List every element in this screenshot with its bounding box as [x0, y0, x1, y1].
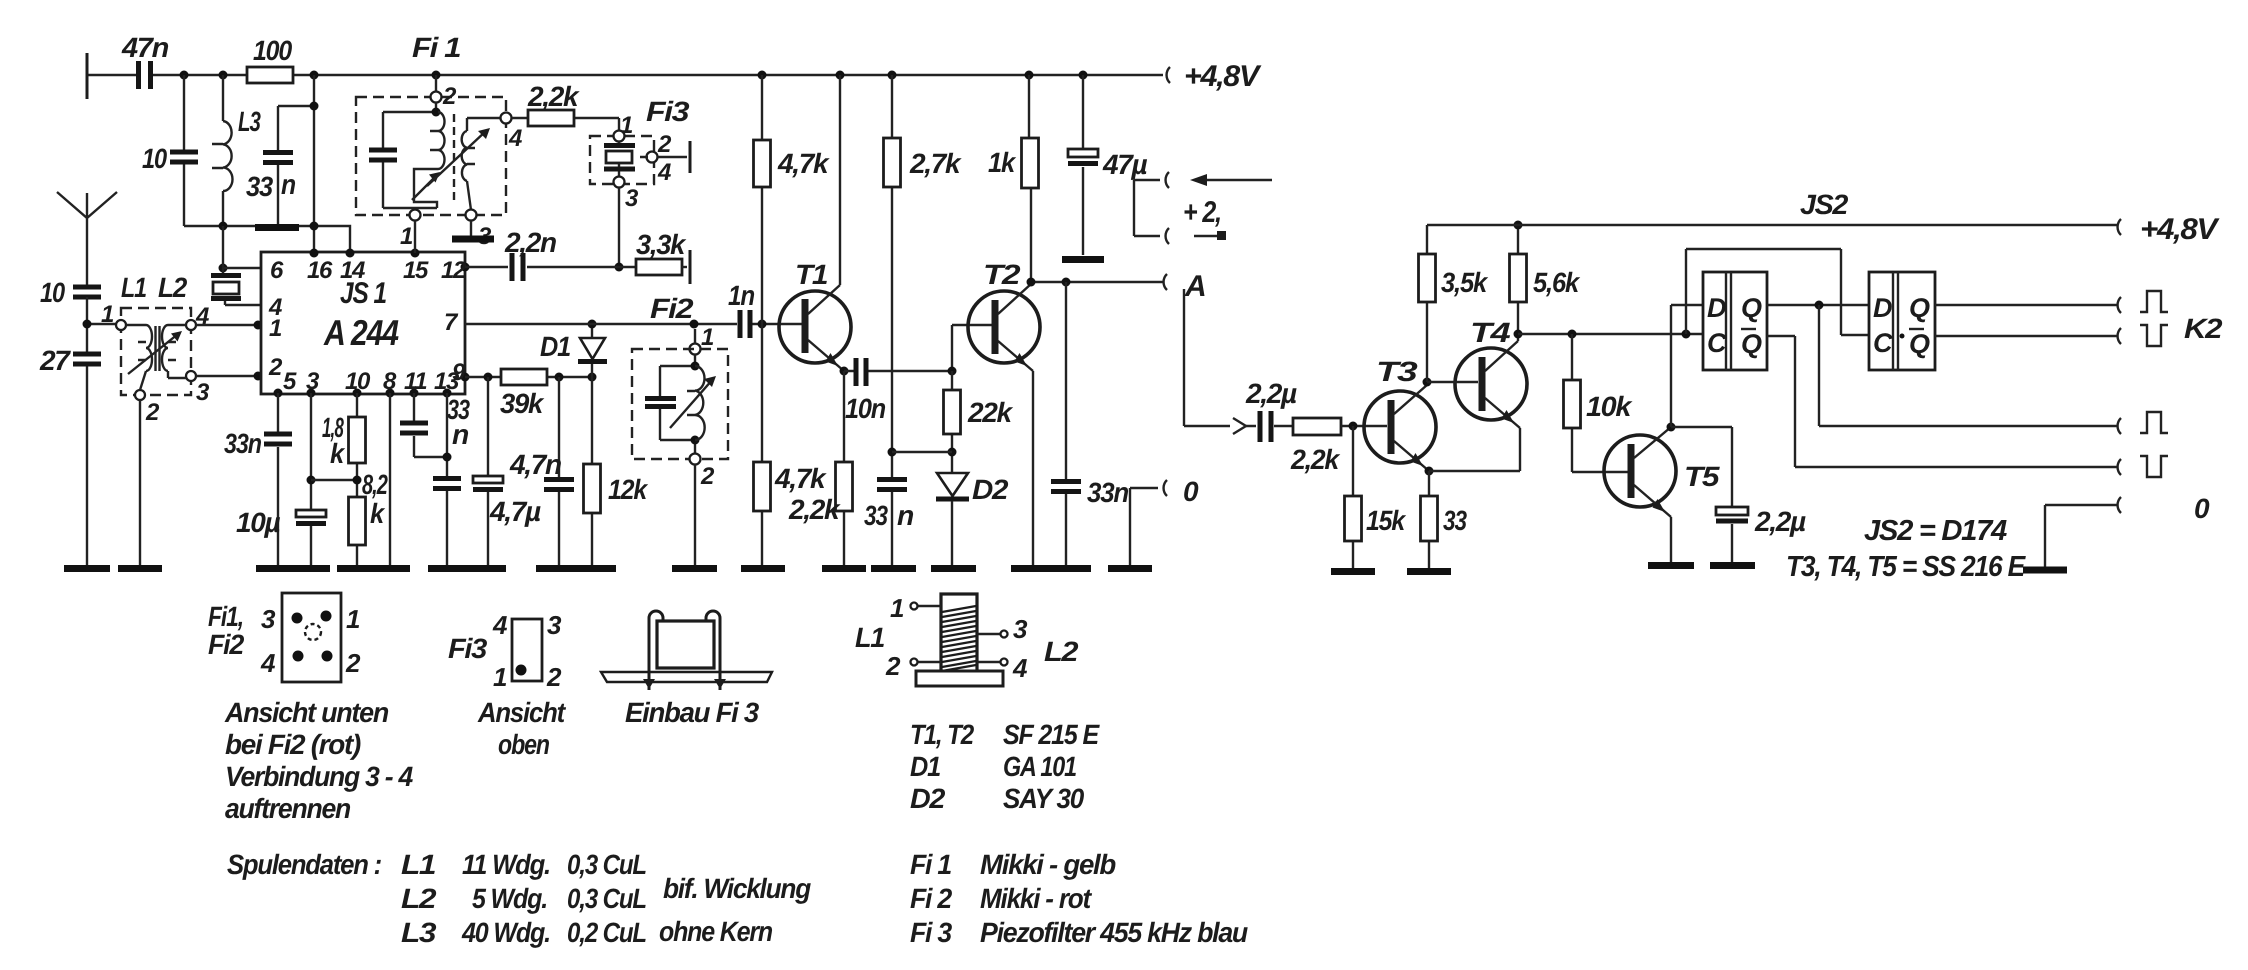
svg-text:T2: T2 [983, 259, 1021, 290]
svg-text:bei Fi2 (rot): bei Fi2 (rot) [225, 729, 361, 760]
capacitor 33n (IC pin11) [400, 393, 470, 457]
transistor T4 [1427, 317, 1527, 428]
svg-text:A 244: A 244 [323, 312, 399, 353]
svg-text:Q: Q [1909, 293, 1930, 323]
resistor 2,7k [884, 75, 963, 452]
svg-text:D2: D2 [972, 474, 1009, 505]
svg-text:4: 4 [260, 648, 276, 678]
ground (D2) [931, 565, 976, 572]
svg-text:33: 33 [246, 171, 274, 202]
IC U1 A244 [261, 249, 470, 398]
capacitor 10 (antenna) [40, 277, 101, 308]
svg-text:5,6k: 5,6k [1533, 267, 1580, 298]
svg-text:Q: Q [1741, 329, 1762, 359]
filter Fi3 [590, 96, 690, 212]
svg-text:D: D [1873, 293, 1892, 323]
resistor 33 (T3 T4 emitters) [1421, 471, 1468, 569]
svg-text:auftrennen: auftrennen [225, 793, 350, 824]
svg-text:Fi 2: Fi 2 [910, 883, 953, 914]
wire Fi2 pin2 to ground [694, 464, 696, 566]
resistor 4,7k (T1 base upper) [754, 75, 831, 324]
terminal +4,8V (JS2) [2118, 213, 2221, 246]
legend Fi3 footprint [448, 610, 562, 692]
svg-text:33n: 33n [224, 428, 261, 459]
resistor 2,2k (T3 base) [1290, 418, 1387, 475]
svg-text:1: 1 [101, 301, 114, 328]
svg-text:2: 2 [700, 463, 715, 490]
resistor 15k [1345, 426, 1407, 569]
ground (pins 10,8 group) [337, 565, 410, 572]
wire ground net under L3 [184, 75, 350, 273]
svg-text:n: n [281, 169, 295, 200]
ground (pins 5,3 group) [256, 565, 330, 572]
svg-text:4: 4 [657, 159, 671, 186]
flip-flop JS2b [1869, 272, 1935, 370]
svg-text:Ansicht: Ansicht [477, 697, 567, 728]
terminal bar antenna input [86, 53, 89, 99]
svg-text:15k: 15k [1366, 505, 1406, 536]
terminal 0 (right) [2045, 493, 2210, 567]
wire T2 base net [948, 325, 993, 376]
svg-text:10: 10 [40, 277, 65, 308]
svg-text:L3: L3 [238, 106, 261, 137]
svg-text:4,7k: 4,7k [774, 463, 827, 494]
capacitor 10 (top left) [142, 75, 198, 226]
svg-text:1: 1 [346, 604, 360, 634]
svg-text:1k: 1k [988, 147, 1016, 178]
capacitor 47u [1068, 75, 1148, 255]
svg-text:SAY 30: SAY 30 [1003, 783, 1085, 814]
terminal output 4 (pulse inverted) [2118, 456, 2168, 477]
resistor 2,2k (T1 emitter) [788, 371, 853, 566]
ground (T5 emitter) [1648, 562, 1694, 569]
svg-text:0,2 CuL: 0,2 CuL [567, 917, 646, 948]
svg-text:39k: 39k [500, 388, 545, 419]
svg-text:2,7k: 2,7k [909, 148, 962, 179]
wire FF1 Q to FF2 D [1767, 301, 1869, 310]
capacitor 33n (IC pin13) [433, 393, 461, 566]
terminal output 2 (K2 pulse inverted) [2118, 313, 2223, 346]
ground (33) [1407, 568, 1451, 575]
ground (terminal 0 left) [1108, 565, 1152, 572]
svg-text:bif. Wicklung: bif. Wicklung [663, 873, 811, 904]
wire L1-2 to ground [139, 400, 141, 566]
terminal bar (Fi3 pin 2-4) [689, 141, 692, 173]
svg-text:T5: T5 [1684, 461, 1720, 492]
resistor 12k [584, 377, 649, 566]
transistor T1 [779, 75, 851, 376]
terminal bar (3,3k) [689, 250, 692, 284]
crystal Q1 [211, 226, 261, 305]
svg-text:2,2k: 2,2k [788, 494, 841, 525]
wire Fi1 pin1 to IC pin15 [414, 221, 416, 253]
svg-text:15: 15 [403, 257, 429, 284]
legend Fi1 Fi2 footprint [208, 593, 361, 682]
svg-text:11: 11 [404, 368, 427, 395]
ground (2,2u T5) [1710, 562, 1755, 569]
svg-text:Spulendaten :: Spulendaten : [227, 849, 381, 880]
svg-text:3: 3 [1013, 614, 1028, 644]
svg-text:8: 8 [383, 368, 397, 395]
svg-text:T1: T1 [795, 259, 828, 290]
svg-text:Q: Q [1909, 329, 1930, 359]
ground (15k) [1331, 568, 1375, 575]
resistor 3,3k [636, 229, 687, 275]
resistor 8,2k [311, 469, 388, 566]
transistor T5 [1604, 423, 1720, 564]
svg-text:2: 2 [885, 651, 901, 681]
svg-text:L1: L1 [401, 849, 436, 880]
capacitor 33n (T2 collector) [1051, 282, 1128, 566]
resistor 22k [892, 371, 1014, 473]
svg-text:Fi1,: Fi1, [208, 601, 243, 632]
capacitor 2,2u (T3 input) [1245, 378, 1297, 442]
svg-text:A: A [1184, 270, 1205, 303]
svg-text:Fi 1: Fi 1 [412, 32, 461, 63]
filter Fi2 [632, 293, 728, 490]
capacitor 4,7n (pin9 net) [509, 377, 574, 566]
ground (antenna chain) [64, 565, 110, 572]
wire top +4,8V supply rail [87, 74, 1163, 76]
connector plug (T3 input) [1233, 418, 1246, 434]
resistor 100 [247, 35, 293, 83]
wire A to T3 input [1184, 289, 1230, 426]
svg-text:K2: K2 [2184, 313, 2223, 344]
terminal output 1 (K2 pulse) [2118, 291, 2168, 313]
svg-text:5: 5 [283, 368, 297, 395]
svg-text:3: 3 [625, 185, 639, 212]
text Einbau Fi 3 [625, 697, 760, 728]
svg-text:4,7k: 4,7k [777, 148, 830, 179]
ground (47u) [1062, 256, 1104, 263]
wire L2 to IC pins 1,2 [196, 321, 263, 381]
svg-text:3: 3 [547, 610, 562, 640]
resistor 4,7k (T1 base lower) [754, 324, 828, 566]
svg-text:2: 2 [546, 662, 562, 692]
capacitor 2,2n (IC pin12) [465, 227, 636, 281]
wire T4 collector to FF1 C [1518, 330, 1703, 339]
svg-text:0,3 CuL: 0,3 CuL [567, 883, 646, 914]
svg-text:10n: 10n [845, 393, 885, 424]
resistor 3,5k [1419, 225, 1489, 382]
wire JS2 +4,8V rail [1427, 189, 2117, 225]
svg-text:8,2: 8,2 [362, 469, 388, 500]
svg-text:2: 2 [657, 131, 672, 158]
terminal +2 bracket [1134, 172, 1272, 244]
legend Einbau Fi3 drawing [601, 611, 772, 690]
resistor 1,8k (IC pin10) [322, 393, 366, 480]
svg-text:100: 100 [253, 35, 293, 66]
wire FF1 Qbar to output 4 [1767, 336, 2117, 467]
svg-text:47n: 47n [121, 32, 168, 63]
svg-text:L2: L2 [401, 883, 437, 914]
svg-text:12: 12 [441, 257, 467, 284]
node antenna junction [83, 320, 117, 329]
svg-text:D1: D1 [540, 331, 571, 362]
svg-text:ohne Kern: ohne Kern [659, 916, 772, 947]
svg-text:1: 1 [493, 662, 507, 692]
text filter list [910, 849, 1248, 948]
svg-text:3: 3 [306, 368, 320, 395]
svg-text:0,3 CuL: 0,3 CuL [567, 849, 646, 880]
svg-text:Fi2: Fi2 [650, 293, 694, 324]
svg-text:oben: oben [498, 729, 549, 760]
diode D1 [540, 320, 607, 378]
svg-text:Fi2: Fi2 [208, 629, 245, 660]
capacitor 2,2u (T5) [1671, 427, 1806, 563]
svg-text:2,2µ: 2,2µ [1245, 378, 1297, 409]
wire Fi3 pin3 down [615, 188, 624, 272]
svg-text:D2: D2 [910, 783, 946, 814]
text semiconductor list [910, 719, 1100, 814]
svg-text:Mikki - gelb: Mikki - gelb [980, 849, 1116, 880]
svg-text:16: 16 [307, 257, 333, 284]
svg-text:C: C [1707, 328, 1727, 358]
svg-text:1: 1 [890, 593, 904, 623]
resistor 1k [988, 75, 1039, 282]
svg-text:Ansicht unten: Ansicht unten [224, 697, 388, 728]
ground (Fi1 pin3) [452, 221, 494, 239]
svg-text:40 Wdg.: 40 Wdg. [461, 917, 550, 948]
svg-text:3: 3 [196, 379, 210, 406]
text Ansicht oben [477, 697, 567, 760]
svg-text:27: 27 [39, 345, 71, 376]
terminal +4,8V (left) [1167, 60, 1263, 93]
ground (33n top-left) [255, 224, 299, 231]
capacitor 10n [844, 358, 952, 424]
svg-text:L1: L1 [121, 272, 147, 303]
svg-text:1: 1 [701, 324, 714, 351]
svg-text:T4: T4 [1470, 317, 1511, 348]
svg-text:47µ: 47µ [1102, 149, 1148, 180]
ground (terminal 0 right) [2023, 567, 2067, 574]
wire FF2 Q to output 1 [1935, 304, 2117, 306]
ground (4,7n 12k group) [536, 565, 616, 572]
wire IC pin8 to ground [389, 393, 391, 566]
svg-text:n: n [452, 419, 468, 450]
diode D2 [936, 473, 1009, 566]
text Ansicht unten [224, 697, 414, 824]
svg-text:4,7µ: 4,7µ [489, 496, 541, 527]
ground (4,7k lower) [741, 565, 785, 572]
svg-text:1n: 1n [728, 280, 754, 311]
svg-text:2,2k: 2,2k [1290, 444, 1341, 475]
svg-text:2: 2 [268, 354, 283, 381]
svg-text:Fi 1: Fi 1 [910, 849, 952, 880]
wire emitter T3-T4 [1429, 428, 1520, 471]
capacitor 47n [121, 32, 168, 89]
resistor 10k [1564, 334, 1633, 472]
ground (T2 33n) [1011, 565, 1091, 572]
svg-text:GA 101: GA 101 [1003, 751, 1077, 782]
svg-text:33: 33 [864, 500, 888, 531]
ground (33n 2,7k) [871, 565, 916, 572]
svg-text:5 Wdg.: 5 Wdg. [472, 883, 547, 914]
ground (2,2k T1) [822, 565, 866, 572]
transistor T3 [1364, 356, 1436, 476]
svg-text:Verbindung 3 - 4: Verbindung 3 - 4 [225, 761, 414, 792]
terminal 0 (left) [1130, 476, 1199, 566]
svg-text:D: D [1707, 293, 1726, 323]
svg-text:10: 10 [142, 143, 167, 174]
svg-text:Mikki - rot: Mikki - rot [980, 883, 1093, 914]
svg-text:3,3k: 3,3k [636, 229, 687, 260]
svg-text:n: n [897, 500, 913, 531]
terminal A [1164, 270, 1206, 303]
svg-text:10: 10 [345, 368, 371, 395]
capacitor 33n (under L3) [246, 106, 295, 226]
svg-text:2: 2 [145, 399, 160, 426]
svg-text:L3: L3 [401, 917, 437, 948]
svg-text:Piezofilter 455 kHz blau: Piezofilter 455 kHz blau [980, 917, 1248, 948]
svg-text:Fi3: Fi3 [646, 96, 690, 127]
resistor 39k (IC pin9) [465, 369, 597, 419]
wire FF2 Qbar to output 2 [1935, 335, 2117, 337]
antenna [57, 192, 117, 285]
svg-text:Fi 3: Fi 3 [910, 917, 953, 948]
capacitor 27 [39, 297, 101, 566]
svg-text:33n: 33n [1087, 477, 1128, 508]
svg-text:33: 33 [1443, 505, 1467, 536]
svg-text:T3: T3 [1376, 356, 1418, 387]
flip-flop JS2a [1703, 272, 1767, 370]
legend coil L1 L2 drawing [855, 593, 1079, 686]
svg-text:4: 4 [492, 610, 508, 640]
svg-text:Fi3: Fi3 [448, 633, 488, 664]
inductor L3 [212, 75, 261, 226]
svg-text:3: 3 [261, 604, 276, 634]
svg-text:1: 1 [269, 315, 282, 342]
svg-text:L1: L1 [855, 622, 885, 653]
capacitor 4,7u (electrolytic, pin9 net) [473, 377, 541, 566]
text T3,T4,T5 = SS216E [1786, 551, 2027, 583]
svg-text:L2: L2 [158, 272, 188, 303]
svg-text:0: 0 [1183, 476, 1199, 507]
wire FF1 Q to output 3 [1819, 305, 2117, 426]
svg-text:0: 0 [2194, 493, 2210, 524]
text JS2 = D174 [1864, 515, 2007, 547]
svg-text:C: C [1873, 328, 1893, 358]
resistor 2,2k (Fi1 to Fi3) [512, 81, 619, 130]
ground (L1 pin2) [118, 565, 162, 572]
wire T2 collector to A [1027, 278, 1164, 287]
svg-text:2: 2 [345, 648, 361, 678]
svg-text:Q: Q [1741, 293, 1762, 323]
wire T5 collector to FF1 D [1671, 305, 1703, 427]
svg-text:2,2n: 2,2n [504, 227, 556, 258]
transistor T2 [968, 259, 1040, 566]
svg-text:22k: 22k [967, 397, 1014, 428]
svg-text:10k: 10k [1586, 391, 1633, 422]
svg-text:JS2 = D174: JS2 = D174 [1864, 515, 2007, 547]
svg-text:1: 1 [400, 223, 413, 250]
svg-text:T1, T2: T1, T2 [910, 719, 974, 750]
svg-text:4: 4 [508, 125, 522, 152]
svg-text:12k: 12k [608, 474, 648, 505]
capacitor 33n (2,7k bottom) [864, 448, 913, 567]
capacitor 10u (IC pin3) [236, 393, 326, 566]
svg-text:T3, T4, T5 = SS 216 E: T3, T4, T5 = SS 216 E [1786, 551, 2027, 583]
svg-text:+ 2,: + 2, [1183, 196, 1221, 229]
svg-text:4,7n: 4,7n [509, 449, 561, 480]
transformer Fi1 [356, 32, 522, 250]
wire IC pin7 net [465, 320, 802, 329]
svg-text:14: 14 [340, 257, 365, 284]
svg-text:D1: D1 [910, 751, 941, 782]
wire FF1 clock loop to FF2 clock [1686, 249, 1869, 335]
svg-text:+4,8V: +4,8V [2140, 213, 2220, 246]
svg-text:SF 215 E: SF 215 E [1003, 719, 1100, 750]
svg-text:2,2µ: 2,2µ [1754, 506, 1806, 537]
svg-text:JS2: JS2 [1800, 189, 1849, 220]
svg-text:2: 2 [442, 83, 457, 110]
svg-text:3,5k: 3,5k [1441, 267, 1488, 298]
terminal output 3 (pulse) [2118, 412, 2168, 434]
svg-text:10µ: 10µ [236, 507, 281, 538]
capacitor 1n [728, 280, 754, 338]
svg-text:11 Wdg.: 11 Wdg. [462, 849, 550, 880]
svg-text:4: 4 [1012, 653, 1028, 683]
svg-text:6: 6 [270, 257, 284, 284]
svg-text:L2: L2 [1044, 636, 1079, 667]
svg-text:Einbau Fi 3: Einbau Fi 3 [625, 697, 760, 728]
capacitor 33n (IC pin5) [224, 393, 292, 566]
transformer L1 L2 [101, 272, 210, 426]
ground (Fi2) [672, 565, 717, 572]
text Spulendaten table [227, 849, 811, 948]
svg-text:9: 9 [452, 359, 466, 386]
ground (pins 13 group) [428, 565, 506, 572]
svg-text:+4,8V: +4,8V [1184, 60, 1262, 93]
node rail junctions [180, 71, 1088, 80]
svg-text:2,2k: 2,2k [527, 81, 580, 112]
resistor 5,6k [1510, 221, 1581, 335]
